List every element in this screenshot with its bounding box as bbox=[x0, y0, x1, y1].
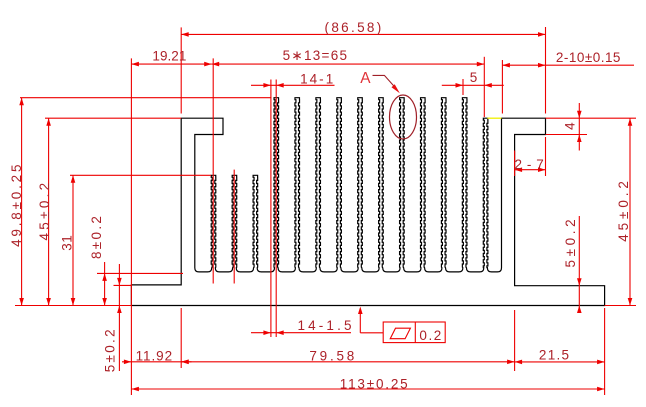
extension line: lip bottom going right (4) bbox=[546, 134, 588, 136]
svg-text:79.58: 79.58 bbox=[309, 348, 357, 363]
svg-text:14-1: 14-1 bbox=[300, 72, 335, 87]
svg-text:45±0.2: 45±0.2 bbox=[616, 177, 631, 242]
svg-text:(86.58): (86.58) bbox=[325, 20, 384, 35]
dimension 4 line bbox=[578, 103, 580, 151]
extension line: fin 2 centerline bbox=[233, 170, 235, 284]
flatness tolerance frame bbox=[383, 322, 445, 343]
dimension 45+-0.2 line bbox=[48, 118, 50, 305]
dimension 31 line bbox=[72, 175, 74, 305]
dimension 14-1.5 line bbox=[251, 332, 351, 334]
svg-text:A: A bbox=[360, 70, 371, 87]
extension line: first tall fin right edge (14-1 / 14-1.5) bbox=[275, 80, 277, 338]
svg-text:2-7: 2-7 bbox=[515, 157, 549, 172]
extension line: right wall left edge (2-10 / 5) bbox=[501, 60, 503, 114]
dimension 5*13=65 line bbox=[212, 63, 485, 65]
extension line: base right edge (bottom, 21.5/113) bbox=[604, 308, 606, 395]
dimension 113+-0.25 line bbox=[131, 388, 604, 390]
svg-text:45±0.2: 45±0.2 bbox=[37, 180, 52, 241]
svg-text:21.5: 21.5 bbox=[539, 347, 570, 362]
svg-text:5∗13=65: 5∗13=65 bbox=[283, 48, 349, 63]
extension line: base left edge (full height) bbox=[130, 58, 132, 395]
detail ellipse A around fin bbox=[390, 95, 417, 139]
extension line: fin 1 centerline bbox=[212, 58, 214, 283]
dimension 49.8+-0.25 line bbox=[21, 98, 23, 306]
extension line: tick at fin 12 center for dim 5 bbox=[462, 79, 464, 95]
extension line: wall outer edge (bottom, 11.92/79.58) bbox=[180, 308, 182, 368]
svg-text:5±0.2: 5±0.2 bbox=[102, 327, 117, 372]
dimension 21.5 line bbox=[515, 361, 605, 363]
extension line: top of tall fins going left (49.8) bbox=[20, 97, 272, 99]
yellow highlight segment between last fin and right wall bbox=[487, 117, 501, 119]
extension line: wall top going right (4 / 45 right) bbox=[546, 117, 637, 119]
extension line: short fin top going left (31) bbox=[70, 174, 211, 176]
extension line: wall top going left (45) bbox=[45, 117, 181, 119]
svg-text:113±0.25: 113±0.25 bbox=[340, 377, 410, 392]
svg-text:4: 4 bbox=[562, 122, 577, 130]
extension line: base bottom going left bbox=[15, 305, 131, 307]
svg-text:8±0.2: 8±0.2 bbox=[89, 214, 104, 259]
detail label A leader line bbox=[373, 75, 398, 89]
extension line: base top going left (5 bottom-left) bbox=[114, 284, 132, 286]
dimension 14-1 line bbox=[251, 84, 335, 86]
dimension (86.58) line bbox=[181, 33, 545, 35]
extension line: first tall fin left edge (14-1 / 14-1.5) bbox=[270, 80, 272, 338]
extension line: left wall outer edge (top) bbox=[180, 27, 182, 113]
dimension 5+-0.2 right line bbox=[578, 216, 580, 313]
dimension 5 line bbox=[442, 84, 504, 86]
extension line: web top going left (8) bbox=[97, 272, 183, 274]
dimension 2-7 line bbox=[515, 169, 546, 171]
svg-text:49.8±0.25: 49.8±0.25 bbox=[9, 162, 24, 247]
extension line: 2-7 right (lip outer edge) bbox=[545, 137, 547, 176]
extension line: right wall outer edge (top) bbox=[545, 27, 547, 114]
svg-text:2-10±0.15: 2-10±0.15 bbox=[556, 50, 621, 65]
svg-text:14-1.5: 14-1.5 bbox=[298, 318, 355, 333]
dimension 11.92 line bbox=[122, 361, 192, 363]
extension line: base bottom going right (45 right) bbox=[605, 305, 636, 307]
dimension 5+-0.2 bottom-left line bbox=[118, 264, 120, 371]
svg-text:5±0.2: 5±0.2 bbox=[563, 216, 578, 268]
svg-text:0.2: 0.2 bbox=[419, 328, 442, 343]
svg-text:31: 31 bbox=[60, 235, 75, 251]
extension line: 2-7 left (wall inner edge) bbox=[514, 151, 516, 177]
extension line: right wall inner edge (bottom, 79.58/21.5) bbox=[514, 310, 516, 371]
dimension 45+-0.2 right line bbox=[629, 118, 631, 305]
heatsink extrusion profile outline bbox=[131, 98, 604, 306]
extension line: fin 14 center (5*13=65 / 5) bbox=[483, 57, 485, 117]
dimension 19.21 line bbox=[131, 63, 211, 65]
flatness parallelogram symbol bbox=[390, 328, 410, 339]
svg-text:19.21: 19.21 bbox=[152, 49, 186, 64]
svg-text:5: 5 bbox=[470, 70, 478, 85]
svg-text:11.92: 11.92 bbox=[136, 348, 173, 363]
dimension 2-10+-0.15 line bbox=[502, 64, 634, 66]
flatness tolerance leader arrow bbox=[359, 309, 361, 333]
dimension 8+-0.2 line bbox=[104, 262, 106, 306]
dimension 79.58 line bbox=[181, 361, 514, 363]
